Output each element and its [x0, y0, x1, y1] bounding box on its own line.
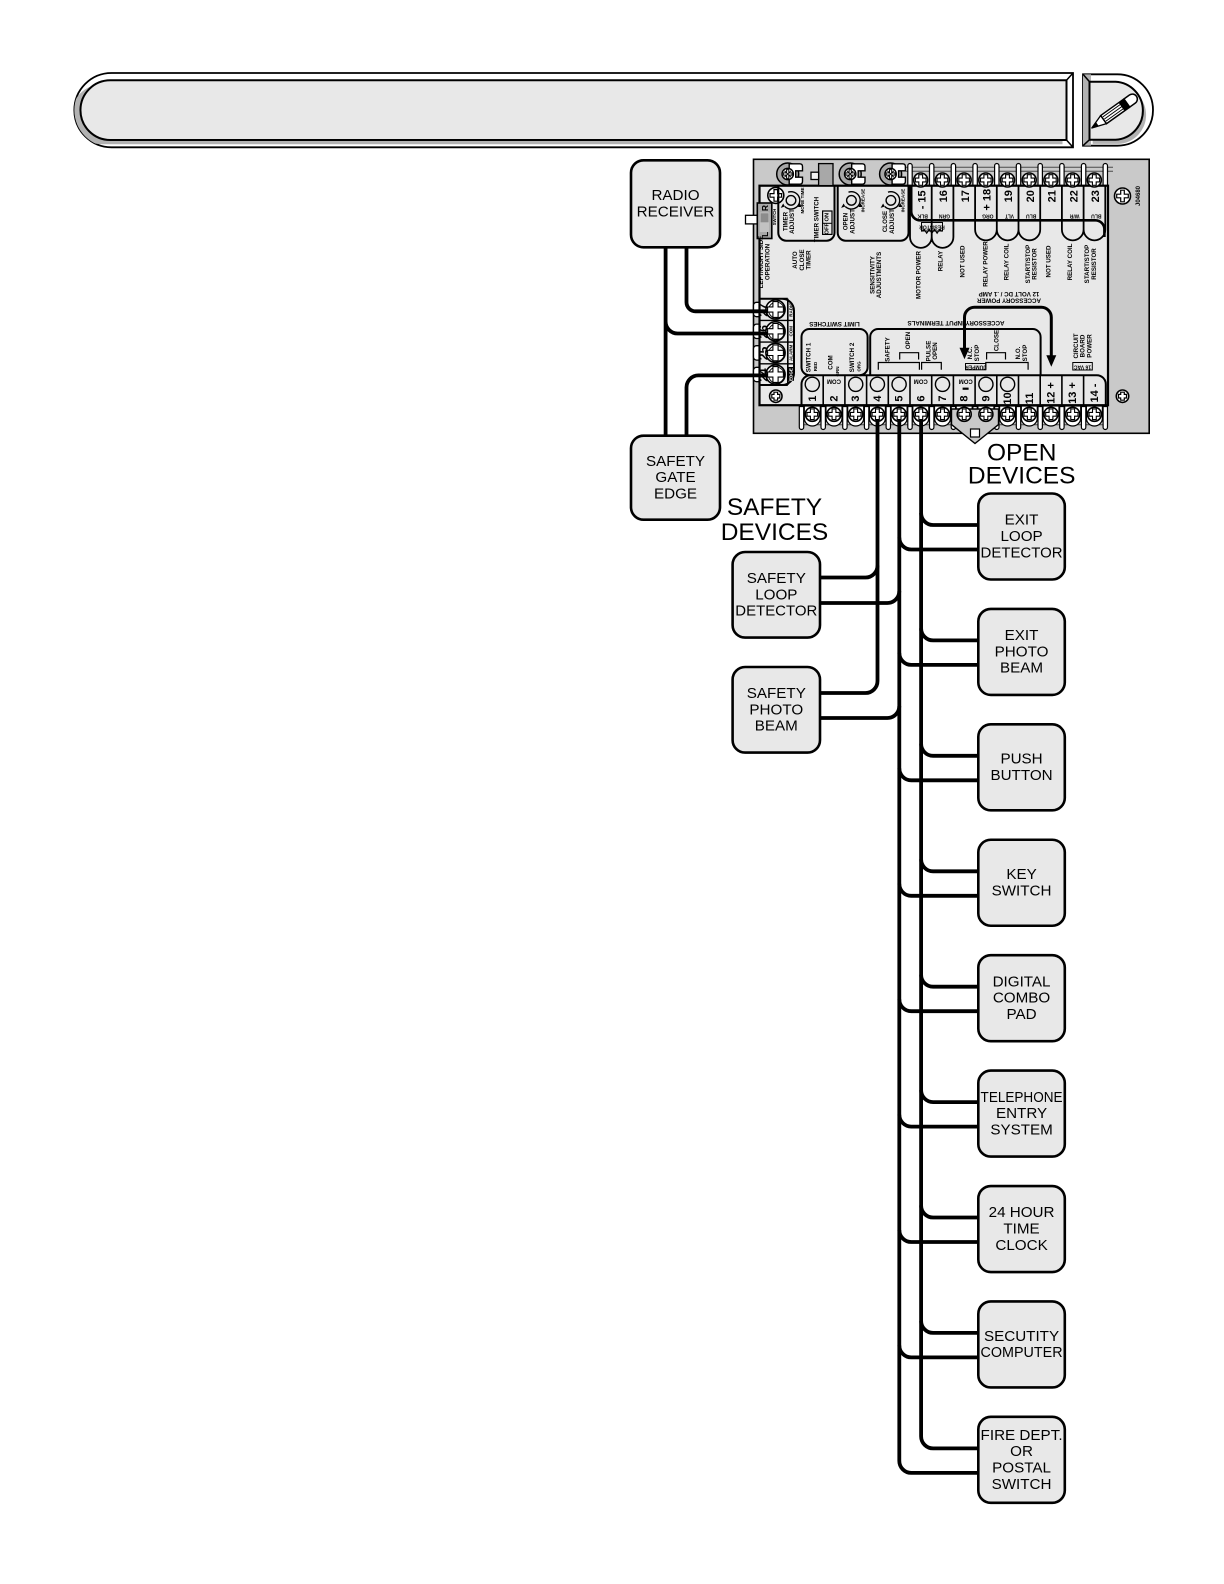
safety bracket	[878, 363, 919, 370]
svg-text:9: 9	[980, 395, 992, 401]
svg-text:RELAY: RELAY	[938, 250, 945, 271]
svg-text:EDGE: EDGE	[788, 368, 793, 381]
safety gate edge box	[631, 436, 720, 520]
svg-text:GATE: GATE	[655, 469, 695, 486]
accessory power wire with arrows	[965, 307, 1052, 356]
svg-text:COMBO: COMBO	[993, 990, 1051, 1007]
svg-text:RED: RED	[813, 361, 818, 371]
title banner pill	[72, 73, 1073, 147]
svg-text:24 HOUR: 24 HOUR	[989, 1204, 1055, 1221]
svg-text:21: 21	[1047, 190, 1059, 202]
svg-text:SWITCH: SWITCH	[992, 1476, 1052, 1493]
resistor symbol	[922, 223, 943, 232]
svg-text:PHOTO: PHOTO	[749, 701, 803, 718]
auto close timer group outline	[778, 186, 834, 241]
svg-text:ADJUST: ADJUST	[889, 209, 896, 234]
svg-text:16 VAC: 16 VAC	[1074, 363, 1092, 369]
terminal finger dividers	[910, 186, 1105, 237]
sensitivity adjustments group outline	[838, 186, 909, 241]
open device box: key switch	[978, 840, 1065, 926]
svg-text:BLK: BLK	[917, 212, 928, 218]
svg-text:SAFETY: SAFETY	[747, 570, 806, 587]
wire: telephone entry system common branch	[899, 1115, 978, 1127]
svg-text:TIMER: TIMER	[805, 250, 812, 270]
svg-text:ADJUST: ADJUST	[789, 209, 796, 234]
safety loop detector box	[733, 552, 820, 638]
adjust dials	[781, 192, 800, 209]
pencil icon	[1089, 92, 1139, 132]
svg-text:+ 18: + 18	[982, 189, 994, 211]
svg-text:NOT USED: NOT USED	[1045, 245, 1052, 278]
open device box: 24 hour time clock	[978, 1186, 1065, 1272]
svg-text:VLT: VLT	[1005, 212, 1014, 218]
svg-text:CLOSE: CLOSE	[993, 330, 1000, 351]
svg-text:ORG: ORG	[857, 361, 862, 372]
svg-text:20: 20	[1025, 190, 1037, 202]
svg-text:7: 7	[937, 395, 949, 401]
svg-text:DIGITAL: DIGITAL	[993, 973, 1051, 990]
svg-text:OFF: OFF	[824, 222, 830, 234]
left/right slide switch	[746, 215, 759, 224]
accessory power label	[976, 290, 1040, 304]
svg-text:EXIT: EXIT	[1005, 512, 1039, 529]
wire: key switch open branch	[921, 859, 978, 871]
svg-text:SECUTITY: SECUTITY	[984, 1328, 1059, 1345]
svg-text:1: 1	[807, 395, 819, 401]
left terminals group outline	[760, 299, 795, 385]
svg-text:LIMIT SWITCHES: LIMIT SWITCHES	[809, 320, 860, 327]
wire: 24 hour time clock open branch	[921, 1206, 978, 1218]
svg-text:RADIO: RADIO	[788, 302, 793, 317]
svg-text:STOP: STOP	[1022, 345, 1029, 362]
svg-text:ENTRY: ENTRY	[996, 1105, 1047, 1122]
svg-text:ADJUST: ADJUST	[850, 209, 857, 234]
svg-text:EDGE: EDGE	[654, 486, 697, 503]
svg-text:OR: OR	[1010, 1443, 1033, 1460]
wire: 24 hour time clock common branch	[899, 1230, 978, 1242]
wire: security computer common branch	[899, 1345, 978, 1357]
svg-text:PUSH: PUSH	[1000, 751, 1042, 768]
svg-text:W/R: W/R	[1069, 212, 1079, 218]
circuit board power	[1073, 333, 1093, 358]
svg-text:COM: COM	[827, 355, 834, 369]
svg-text:LOOP: LOOP	[755, 586, 797, 603]
svg-text:PHOTO: PHOTO	[995, 643, 1049, 660]
svg-text:17: 17	[960, 190, 972, 202]
wire: exit photo beam common branch	[899, 653, 978, 665]
left/right side operation label	[758, 236, 772, 289]
svg-text:ON: ON	[824, 213, 830, 222]
wire: exit loop detector common branch	[899, 538, 978, 550]
svg-text:J04680: J04680	[1136, 185, 1142, 206]
wire: radio receiver / safety gate edge common to terminal 26	[666, 247, 768, 435]
svg-text:19: 19	[1003, 190, 1015, 202]
svg-text:BEAM: BEAM	[755, 718, 798, 735]
safety photo beam box	[733, 667, 820, 753]
svg-text:10: 10	[1002, 392, 1014, 404]
pencil note box	[1083, 74, 1153, 145]
svg-text:INCREASE: INCREASE	[861, 189, 866, 213]
svg-text:ADJUSTMENTS: ADJUSTMENTS	[876, 252, 883, 298]
svg-text:STOP: STOP	[974, 345, 981, 362]
svg-text:22: 22	[1068, 190, 1080, 202]
open device box: fire dept or postal switch	[978, 1417, 1065, 1503]
svg-text:INCREASE: INCREASE	[900, 189, 905, 213]
svg-text:SWITCH: SWITCH	[772, 209, 777, 226]
svg-text:NOT USED: NOT USED	[959, 245, 966, 278]
svg-text:KEY: KEY	[1006, 866, 1036, 883]
trimmer potentiometers	[777, 163, 803, 185]
svg-text:DEVICES: DEVICES	[721, 519, 829, 546]
svg-text:12 +: 12 +	[1046, 382, 1058, 404]
wire: exit loop detector open branch	[921, 513, 978, 525]
svg-text:OPERATION: OPERATION	[765, 243, 772, 280]
svg-text:COM: COM	[788, 326, 793, 337]
svg-text:RESISTOR: RESISTOR	[1032, 248, 1039, 280]
wire: common bus (terminal 5)	[899, 420, 978, 1473]
svg-text:ACCESSORY INPUT TERMINALS: ACCESSORY INPUT TERMINALS	[908, 319, 1005, 326]
open device box: exit loop detector	[978, 494, 1065, 580]
wire: push button common branch	[899, 768, 978, 780]
timer slide switch component	[819, 164, 833, 186]
svg-text:PAD: PAD	[1006, 1006, 1036, 1023]
top terminal block tabs 15-23	[906, 167, 1113, 171]
open devices heading	[968, 440, 1076, 490]
svg-text:SAFETY: SAFETY	[646, 453, 705, 470]
open device box: telephone entry system	[978, 1071, 1065, 1157]
open device box: digital combo pad	[978, 955, 1065, 1041]
pulse open bracket	[922, 363, 942, 370]
svg-text:SYSTEM: SYSTEM	[990, 1121, 1052, 1138]
svg-text:ORG: ORG	[982, 212, 994, 218]
svg-text:FIRE DEPT.: FIRE DEPT.	[981, 1427, 1063, 1444]
svg-text:2: 2	[829, 395, 841, 401]
wire: safety loop detector common	[820, 591, 899, 603]
svg-text:SWITCH: SWITCH	[992, 882, 1052, 899]
svg-text:COM: COM	[959, 377, 973, 383]
svg-text:RESISTOR: RESISTOR	[919, 224, 945, 230]
auto close timer label	[792, 249, 812, 270]
svg-text:GRN: GRN	[938, 212, 950, 218]
accessory input terminals group outline	[870, 329, 1040, 375]
sensitivity adjustments label	[869, 252, 883, 298]
svg-text:BLU: BLU	[1026, 212, 1037, 218]
svg-text:ALARM: ALARM	[788, 345, 793, 361]
control board mounting plate	[754, 159, 1150, 433]
svg-text:SAFETY: SAFETY	[727, 494, 822, 521]
wire: terminal 4 safety line	[820, 420, 878, 693]
svg-text:RADIO: RADIO	[651, 187, 699, 204]
svg-text:- 15: - 15	[916, 190, 928, 209]
svg-text:5: 5	[894, 395, 906, 401]
mounting tab pointer	[952, 409, 999, 444]
bottom terminal block tabs 1-14	[800, 421, 1107, 425]
radio receiver box	[631, 160, 720, 247]
wire: security computer open branch	[921, 1321, 978, 1333]
svg-text:POWER: POWER	[1086, 334, 1093, 358]
svg-text:SAFETY: SAFETY	[747, 685, 806, 702]
motor wire 15 to 23	[911, 186, 1104, 237]
svg-text:RELAY COIL: RELAY COIL	[1004, 243, 1011, 280]
svg-text:8: 8	[959, 395, 971, 401]
svg-text:SWITCH 2: SWITCH 2	[849, 342, 856, 372]
bottom terminal strip outline	[802, 375, 1106, 405]
wire: radio receiver to terminal 27	[687, 247, 769, 311]
svg-text:13 +: 13 +	[1067, 382, 1079, 404]
svg-text:6: 6	[915, 395, 927, 401]
wire: safety photo beam common	[820, 706, 899, 718]
svg-text:12 VOLT DC / .1 AMP: 12 VOLT DC / .1 AMP	[979, 290, 1040, 297]
svg-text:RECEIVER: RECEIVER	[637, 204, 715, 221]
svg-text:COM: COM	[827, 378, 841, 384]
wire: exit photo beam open branch	[921, 628, 978, 640]
svg-text:SWITCH 1: SWITCH 1	[806, 342, 813, 372]
svg-text:COMPUTER: COMPUTER	[981, 1344, 1063, 1361]
svg-text:GRN: GRN	[835, 367, 840, 377]
svg-text:R: R	[760, 205, 770, 211]
svg-text:BLU: BLU	[1091, 212, 1102, 218]
terminal screws	[914, 173, 928, 187]
wire: digital combo pad common branch	[899, 999, 978, 1011]
svg-text:TIMER SWITCH: TIMER SWITCH	[814, 196, 821, 242]
svg-text:DETECTOR: DETECTOR	[981, 544, 1063, 561]
safety devices heading	[721, 494, 829, 546]
svg-text:TIME: TIME	[1003, 1221, 1039, 1238]
svg-text:COM: COM	[914, 378, 928, 384]
svg-text:LOOP: LOOP	[1000, 528, 1042, 545]
svg-text:OPEN: OPEN	[932, 342, 939, 360]
svg-text:JUMPER: JUMPER	[965, 364, 986, 370]
wire: open bus (terminal 6)	[921, 420, 978, 1448]
svg-text:MORE TIME: MORE TIME	[800, 187, 805, 213]
svg-text:11: 11	[1024, 393, 1036, 405]
wire: push button open branch	[921, 744, 978, 756]
wire: branch to safety loop detector	[820, 566, 878, 578]
bottom terminal circles	[805, 377, 819, 391]
wire: key switch common branch	[899, 884, 978, 896]
svg-text:SAFETY: SAFETY	[885, 336, 892, 361]
finger arcs	[910, 230, 1105, 248]
left terminal tabs 24-27	[754, 302, 772, 316]
svg-text:16: 16	[938, 190, 950, 202]
open device box: exit photo beam	[978, 609, 1065, 695]
open device box: push button	[978, 724, 1065, 810]
svg-text:TELEPHONE: TELEPHONE	[981, 1089, 1063, 1106]
limit switches group outline	[802, 329, 868, 375]
svg-text:RESISTOR: RESISTOR	[1091, 248, 1098, 280]
corner screws	[768, 187, 784, 203]
printed circuit board	[760, 186, 1109, 406]
svg-text:DEVICES: DEVICES	[968, 463, 1076, 490]
svg-text:BUTTON: BUTTON	[990, 767, 1052, 784]
wire: safety gate edge to terminal 24	[687, 375, 769, 435]
svg-text:14 -: 14 -	[1089, 383, 1101, 402]
svg-text:DETECTOR: DETECTOR	[735, 603, 817, 620]
svg-text:25: 25	[757, 346, 771, 360]
svg-text:RELAY POWER: RELAY POWER	[983, 241, 990, 287]
svg-text:EXIT: EXIT	[1005, 627, 1039, 644]
svg-text:POSTAL: POSTAL	[992, 1460, 1051, 1477]
svg-text:4: 4	[872, 395, 884, 402]
svg-text:23: 23	[1090, 190, 1102, 202]
svg-text:OPEN: OPEN	[905, 331, 912, 349]
svg-text:3: 3	[850, 395, 862, 401]
wire: telephone entry system open branch	[921, 1090, 978, 1102]
wire: digital combo pad open branch	[921, 975, 978, 987]
svg-text:CLOCK: CLOCK	[995, 1237, 1047, 1254]
open device box: security computer	[978, 1301, 1065, 1387]
svg-text:MOTOR POWER: MOTOR POWER	[916, 250, 923, 299]
svg-text:BEAM: BEAM	[1000, 660, 1043, 677]
jumper box	[966, 364, 986, 370]
svg-text:RELAY COIL: RELAY COIL	[1067, 243, 1074, 280]
